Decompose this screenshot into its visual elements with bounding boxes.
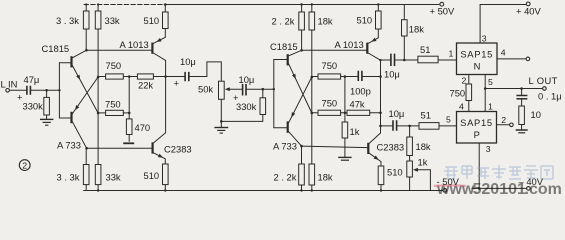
resistor 2.2k (bottom, 2nd block) xyxy=(301,146,303,190)
svg-text:A 1013: A 1013 xyxy=(120,39,149,50)
wire: base of C1815 (2nd) xyxy=(274,59,287,61)
wire: +40V supply from SAP15N pin3 xyxy=(480,4,526,6)
wire: 100p to driver output node xyxy=(363,76,381,78)
svg-text:510: 510 xyxy=(144,170,160,181)
resistor 3.3k (bottom left) xyxy=(85,148,87,190)
svg-text:18k: 18k xyxy=(416,141,431,152)
resistor 33k (top left) xyxy=(97,5,99,12)
wire: 750 to 100p xyxy=(341,76,358,78)
resistor 33k (bottom left) xyxy=(97,185,99,191)
node: 330k tap xyxy=(45,89,48,92)
svg-text:C2383: C2383 xyxy=(377,141,405,152)
svg-text:- 50V: - 50V xyxy=(437,176,460,187)
svg-text:C2383: C2383 xyxy=(164,144,192,155)
ground (Zobel) xyxy=(516,129,528,131)
node: Zobel tap xyxy=(520,87,523,90)
resistor 750 (upper emitter, 2nd block) xyxy=(312,76,318,78)
wiper arrow of 50k xyxy=(228,88,242,90)
node: A733 collector / C2383 base (2nd) xyxy=(300,145,303,148)
ground (1k, 2nd block) xyxy=(338,156,351,158)
wire: lower 750 to 47k xyxy=(341,112,347,114)
svg-text:1: 1 xyxy=(449,48,454,58)
svg-text:3 . 3k: 3 . 3k xyxy=(57,171,80,182)
circled number 2 xyxy=(19,160,30,171)
potentiometer 1k (bias adjust) xyxy=(407,161,413,177)
svg-text:C1815: C1815 xyxy=(42,43,70,54)
svg-text:A 1013: A 1013 xyxy=(335,39,364,50)
svg-text:51: 51 xyxy=(421,109,431,120)
capacitor 47u input coupling xyxy=(27,86,31,95)
watermark: www.520101.com xyxy=(436,181,562,198)
svg-text:3 . 3k: 3 . 3k xyxy=(56,15,79,26)
svg-text:A 733: A 733 xyxy=(57,140,81,151)
wire: +50V top supply rail (dashed left part) xyxy=(84,4,164,6)
node: emitter cross lower (2nd) xyxy=(311,112,314,115)
svg-text:18k: 18k xyxy=(318,171,333,182)
resistor 470 (to C2383 base plate) xyxy=(128,113,130,141)
wire: 750 to 22k xyxy=(123,76,137,78)
wire: 50k bottom to ground xyxy=(220,99,222,121)
wire: link column upper-lower (left block) xyxy=(128,77,130,113)
node: top rail junction at 510 xyxy=(164,3,167,6)
wire: +50V top supply rail (solid part) xyxy=(164,4,439,6)
resistor 750 (lower emitter, left block) xyxy=(98,112,106,114)
svg-text:1k: 1k xyxy=(350,126,360,137)
svg-text:N: N xyxy=(474,61,481,72)
watermark: blue Chinese characters xyxy=(444,165,553,179)
svg-text:330k: 330k xyxy=(23,100,44,111)
wire: pin 3 of SAP15P down to -40V rail xyxy=(478,143,480,188)
capacitor 10u (upper drive coupling) xyxy=(391,54,395,66)
svg-text:750: 750 xyxy=(450,88,466,99)
terminal L OUT xyxy=(543,87,547,91)
terminal L IN xyxy=(6,89,10,93)
wire: pin 3 of SAP15N to +40V xyxy=(479,5,481,44)
node: A733 collector / C2383 base xyxy=(85,147,88,150)
capacitor 0.1u (Zobel) xyxy=(521,89,523,95)
svg-text:2 . 2k: 2 . 2k xyxy=(274,171,297,182)
resistor 510 (C2383 emitter) xyxy=(164,185,166,191)
watermark: red underline stroke xyxy=(434,184,466,187)
node: 18k drop tap xyxy=(403,59,406,62)
node: output tap xyxy=(484,87,487,90)
wire: cap to input base rail xyxy=(31,89,59,91)
transistor A1013 (2nd driver upper PNP) xyxy=(366,43,368,54)
svg-text:10μ: 10μ xyxy=(384,69,400,80)
svg-text:0 . 1μ: 0 . 1μ xyxy=(538,90,562,101)
wire: base of C1815 upper xyxy=(59,62,70,64)
wire: driver output vertical (2nd block) xyxy=(380,60,382,133)
resistor 2.2k (top, second stage) xyxy=(301,5,303,51)
resistor 47k (feedback) xyxy=(347,110,370,115)
wire: base of A733 (2nd) xyxy=(274,127,287,129)
svg-text:– 40V: – 40V xyxy=(519,176,544,187)
svg-text:18k: 18k xyxy=(409,24,424,35)
IC SAP15 P (Darlington PNP module) xyxy=(457,112,497,144)
wire: 2nd stage base rail vertical xyxy=(273,60,275,128)
svg-text:5: 5 xyxy=(446,114,451,124)
svg-text:750: 750 xyxy=(105,99,121,110)
svg-text:+ 40V: + 40V xyxy=(516,6,542,17)
resistor 750 (upper emitter, left block) xyxy=(98,76,106,78)
wire: N pin5 to P pin1 (output node) xyxy=(484,75,486,112)
svg-text:1: 1 xyxy=(488,101,493,111)
node: top rail junction at 510 right xyxy=(377,3,379,5)
wire: input to coupling cap xyxy=(9,89,26,91)
svg-text:C1815: C1815 xyxy=(270,41,298,52)
svg-text:330k: 330k xyxy=(236,101,257,112)
wire: 22k to driver output node xyxy=(153,76,184,78)
capacitor 10u (to 2nd stage input) xyxy=(243,84,246,96)
svg-text:10: 10 xyxy=(531,109,541,120)
wire: -50V bottom rail xyxy=(84,190,443,192)
resistor 51 (SAP15N gate stopper) xyxy=(418,56,438,63)
ground (50k / 330k) xyxy=(220,121,222,127)
wire: base of A733 lower xyxy=(59,117,70,119)
wire: 33k column down to emitter cross node xyxy=(97,29,99,165)
svg-text:SAP15: SAP15 xyxy=(460,117,493,128)
svg-text:47μ: 47μ xyxy=(24,74,40,85)
svg-text:2: 2 xyxy=(462,76,467,86)
svg-text:5: 5 xyxy=(488,77,493,87)
svg-text:4: 4 xyxy=(459,101,464,111)
transistor A1013 (driver upper PNP) xyxy=(151,43,153,54)
svg-text:470: 470 xyxy=(135,122,151,133)
svg-text:1k: 1k xyxy=(418,156,428,167)
terminal +40V xyxy=(526,2,530,6)
capacitor 10u (left block output coupling) xyxy=(185,72,189,81)
transistor C2383 (2nd driver lower NPN) xyxy=(367,143,369,154)
plate under 470 xyxy=(123,142,134,144)
svg-text:2: 2 xyxy=(501,115,506,125)
svg-text:10μ: 10μ xyxy=(239,74,255,85)
svg-text:33k: 33k xyxy=(105,15,120,26)
node: top rail junction at 2.2k xyxy=(300,3,302,5)
wire: cap to 50k pot top xyxy=(189,62,221,81)
ground (input 330k) xyxy=(40,118,53,120)
svg-text:750: 750 xyxy=(322,98,338,109)
svg-text:100p: 100p xyxy=(350,86,371,97)
node: 750/22k/470 junction xyxy=(128,75,131,78)
node: emitter cross lower xyxy=(97,112,100,115)
wire: pin 2 of SAP15P to terminal xyxy=(497,124,510,126)
wire: 51 to pin 1 xyxy=(438,59,456,61)
svg-text:18k: 18k xyxy=(318,15,333,26)
svg-text:3: 3 xyxy=(482,33,487,43)
svg-text:10μ: 10μ xyxy=(180,56,196,67)
node: 18k bias tap xyxy=(408,125,411,128)
svg-text:47k: 47k xyxy=(350,99,365,110)
transistor C1815 (input upper NPN) xyxy=(70,56,72,67)
node: emitter cross upper xyxy=(97,76,100,79)
svg-text:+: + xyxy=(174,77,180,88)
svg-text:3: 3 xyxy=(486,144,491,154)
svg-text:510: 510 xyxy=(144,15,160,26)
wire: 51 to pin 5 xyxy=(439,125,457,127)
svg-text:10μ: 10μ xyxy=(389,108,405,119)
svg-text:P: P xyxy=(474,129,480,140)
node: C1815 collector / A1013 base xyxy=(85,49,88,52)
wire: lower 750 to 470 junction xyxy=(123,112,129,114)
svg-text:2: 2 xyxy=(22,160,27,170)
resistor 510 (collector load A1013 left) xyxy=(164,5,166,38)
svg-text:22k: 22k xyxy=(138,80,153,91)
transistor A733 (2nd stage lower PNP) xyxy=(287,121,289,132)
resistor 1k (to ground, 2nd block) xyxy=(344,113,346,122)
node: C1815 collector / A1013 base (2nd) xyxy=(300,49,303,52)
capacitor 100p xyxy=(358,71,362,81)
svg-text:51: 51 xyxy=(420,44,430,55)
resistor 510 (C2383 emitter, 2nd block) xyxy=(380,185,382,191)
resistor 18k (bottom, 2nd block) xyxy=(311,185,313,191)
transistor C1815 (2nd stage upper NPN) xyxy=(287,54,289,65)
resistor 330k (input bias) xyxy=(46,90,48,119)
svg-text:33k: 33k xyxy=(106,171,121,182)
svg-text:510: 510 xyxy=(357,15,373,26)
svg-text:510: 510 xyxy=(387,167,403,178)
potentiometer 50k xyxy=(219,81,225,99)
svg-text:SAP15: SAP15 xyxy=(460,48,493,59)
wire: 18k column down to emitter cross node (2nd block) xyxy=(311,30,313,164)
wire: upper drive line to SAP15N xyxy=(381,59,391,61)
terminal +50V xyxy=(440,2,444,6)
wire: ground bus to 330k bottom xyxy=(221,115,262,122)
transistor A733 (input lower PNP) xyxy=(70,112,72,123)
node: bottom rail junctions xyxy=(97,189,99,191)
wire: cap to 2nd stage base rail xyxy=(247,88,274,90)
transistor C2383 (driver lower NPN) xyxy=(152,142,154,153)
wire: 47k to driver output vertical xyxy=(370,112,381,114)
svg-text:50k: 50k xyxy=(198,83,213,94)
resistor 750 (lower emitter, 2nd block) xyxy=(312,112,318,114)
IC SAP15 N (Darlington NPN module) xyxy=(457,43,498,75)
resistor 51 (SAP15P gate stopper) xyxy=(419,123,439,130)
capacitor 10u (lower drive coupling) xyxy=(393,120,397,131)
resistor 22k xyxy=(137,74,153,79)
node: 330k top tap xyxy=(262,88,265,91)
resistor 510 (collector load A1013 right) xyxy=(377,5,379,38)
svg-text:L OUT: L OUT xyxy=(529,75,558,86)
resistor 10 (Zobel) xyxy=(521,100,523,130)
svg-text:A 733: A 733 xyxy=(273,141,297,152)
svg-text:+ 50V: + 50V xyxy=(430,6,456,17)
resistor 750 (between N pin2 and P pin4) xyxy=(468,75,470,112)
wire: driver output vertical (left block) xyxy=(165,60,167,132)
node: emitter cross upper (2nd) xyxy=(311,76,314,79)
resistor 330k (2nd stage bias) xyxy=(262,89,264,98)
resistor 3.3k (top left) xyxy=(85,5,87,50)
svg-text:L IN: L IN xyxy=(1,78,18,89)
wire: link column (2nd block) xyxy=(344,77,346,113)
wire: pin 4 of SAP15N to output terminal xyxy=(497,58,526,60)
wire: input base rail vertical xyxy=(58,63,60,118)
svg-text:750: 750 xyxy=(322,60,338,71)
terminal -40V xyxy=(527,187,531,191)
terminal -50V xyxy=(443,189,447,193)
wire: output line to L OUT xyxy=(485,88,542,90)
wire: -40V rail segment xyxy=(472,187,527,189)
svg-text:2 . 2k: 2 . 2k xyxy=(272,15,295,26)
svg-text:750: 750 xyxy=(106,60,122,71)
svg-text:4: 4 xyxy=(501,48,506,58)
wiper arrow of 1k pot xyxy=(416,170,430,191)
resistor 18k (bias chain lower) xyxy=(409,126,411,161)
wire: lower drive line from 2nd block xyxy=(381,125,393,127)
node: top rail junction at 18k xyxy=(311,3,313,5)
resistor 18k (from +50V to driver output) xyxy=(403,5,405,61)
resistor 18k (top, second stage) xyxy=(311,5,313,13)
